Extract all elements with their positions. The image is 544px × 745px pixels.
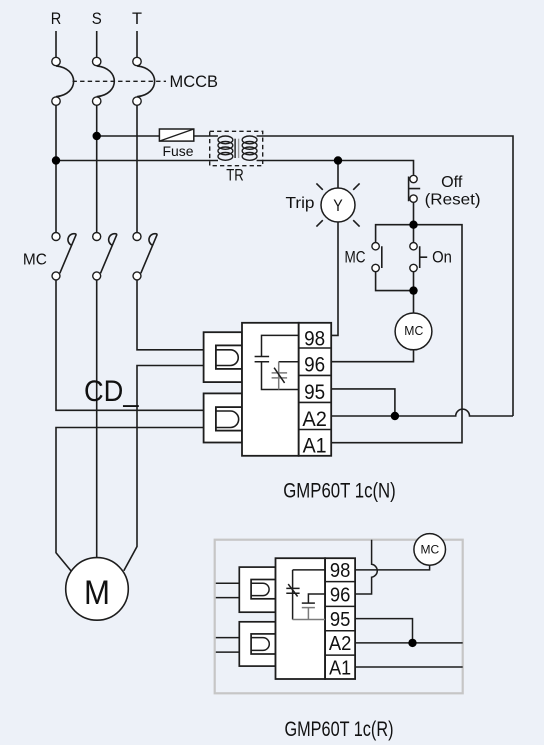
svg-text:A1: A1 (303, 435, 327, 458)
svg-text:S: S (92, 9, 102, 28)
svg-text:CD_: CD_ (84, 375, 140, 408)
svg-text:A2: A2 (329, 633, 352, 655)
svg-text:95: 95 (304, 381, 325, 404)
svg-text:Off: Off (441, 174, 463, 191)
svg-text:96: 96 (330, 584, 351, 606)
svg-text:MC: MC (404, 323, 423, 338)
svg-text:98: 98 (304, 327, 325, 350)
svg-text:95: 95 (330, 609, 351, 631)
svg-text:MC: MC (345, 249, 366, 267)
svg-text:Fuse: Fuse (163, 143, 194, 159)
svg-text:98: 98 (330, 560, 351, 582)
svg-text:A1: A1 (329, 657, 351, 679)
svg-text:96: 96 (304, 354, 325, 377)
svg-text:Y: Y (333, 197, 343, 215)
svg-text:TR: TR (226, 166, 244, 185)
svg-text:GMP60T 1c(R): GMP60T 1c(R) (285, 718, 394, 741)
svg-text:M: M (84, 574, 110, 612)
svg-text:T: T (132, 9, 142, 28)
svg-text:MC: MC (421, 543, 440, 557)
svg-text:A2: A2 (302, 408, 327, 431)
svg-text:GMP60T 1c(N): GMP60T 1c(N) (283, 480, 396, 503)
svg-text:Trip: Trip (286, 195, 315, 212)
svg-text:MC: MC (23, 252, 47, 269)
svg-text:R: R (51, 9, 62, 28)
svg-text:MCCB: MCCB (170, 72, 219, 91)
svg-text:(Reset): (Reset) (425, 192, 481, 209)
svg-text:On: On (432, 248, 452, 266)
